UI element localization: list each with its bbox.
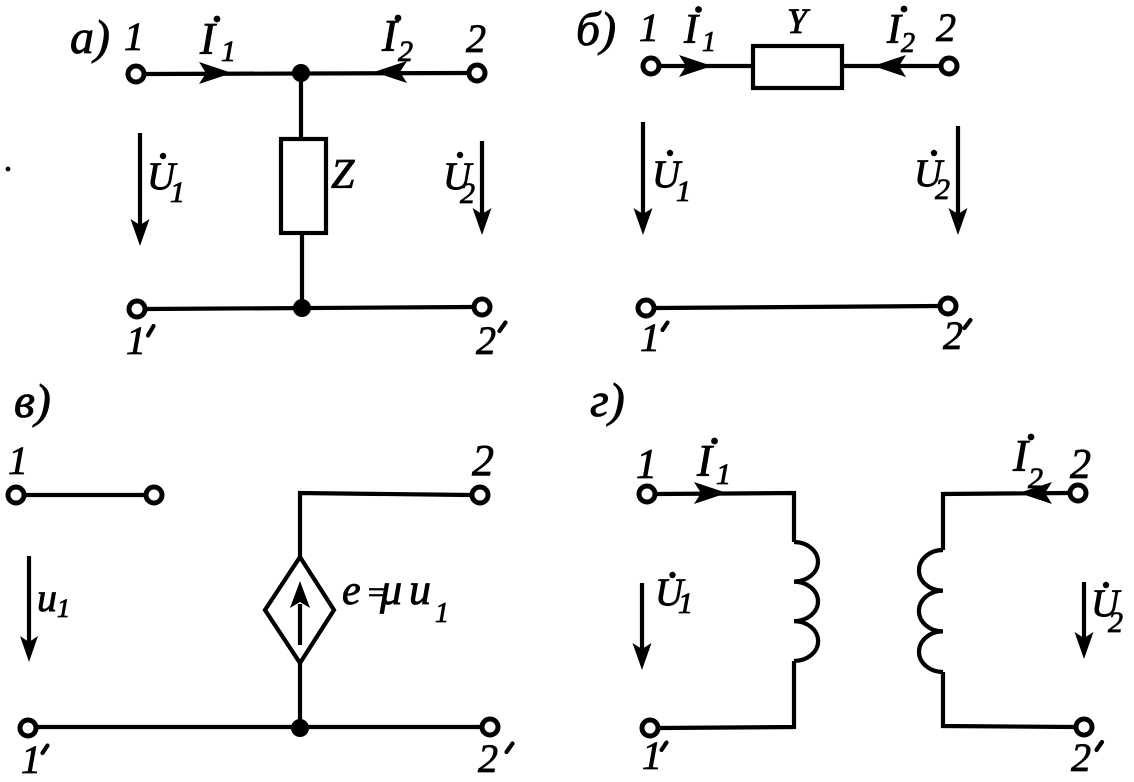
terminal 1 — [8, 487, 24, 503]
current I1 label — [199, 14, 236, 68]
node 2' label — [476, 318, 506, 363]
svg-text:1: 1 — [435, 598, 449, 629]
terminal 2' — [474, 299, 490, 315]
voltage U2 label — [443, 152, 475, 210]
terminal 2' — [940, 298, 956, 314]
voltage U2 arrow — [1075, 582, 1094, 659]
svg-text:e: e — [342, 568, 361, 614]
svg-text:Z: Z — [331, 152, 355, 198]
svg-text:1: 1 — [57, 594, 70, 623]
terminal 1' — [129, 301, 145, 317]
terminal 2' — [1076, 719, 1092, 735]
svg-text:μ: μ — [379, 565, 402, 614]
current I2 label — [886, 6, 915, 59]
node junction bottom — [291, 719, 309, 737]
source inner arrow — [290, 581, 310, 645]
wire coil bottom to terminal 2' — [943, 672, 1074, 727]
open end terminal — [146, 487, 162, 503]
svg-text:1: 1 — [716, 458, 731, 491]
voltage U1 arrow — [131, 133, 150, 246]
svg-text:1: 1 — [170, 176, 185, 209]
wire Y to terminal 2 — [842, 64, 939, 68]
impedance Z body — [281, 139, 326, 233]
svg-text:I: I — [683, 7, 700, 53]
svg-text:2: 2 — [1108, 606, 1123, 639]
svg-text:I: I — [199, 14, 217, 64]
svg-text:1: 1 — [702, 27, 716, 58]
node 1' label — [126, 318, 154, 363]
svg-text:2: 2 — [936, 5, 956, 50]
terminal 1 — [128, 66, 144, 82]
svg-text:2: 2 — [901, 28, 915, 59]
terminal 2 — [1070, 485, 1086, 501]
terminal 1 — [639, 486, 655, 502]
svg-text:1: 1 — [124, 14, 144, 59]
wire terminal 1 to Y — [661, 64, 753, 68]
svg-text:2: 2 — [1071, 735, 1091, 780]
svg-text:u: u — [409, 565, 431, 614]
voltage U1 label — [655, 571, 693, 620]
current I1 arrow — [199, 62, 232, 84]
voltage U2 arrow — [949, 126, 968, 235]
svg-text:u: u — [37, 575, 57, 620]
terminal 1' — [638, 300, 654, 316]
voltage u1 label — [37, 575, 70, 623]
wire terminal 2 to coil top — [943, 493, 1068, 550]
voltage U2 label — [1091, 582, 1123, 639]
terminal 2 — [472, 487, 488, 503]
current I2 arrow — [1019, 482, 1052, 504]
terminal 2 — [941, 58, 957, 74]
coil L2 — [919, 550, 943, 672]
wire node to Z — [299, 73, 303, 141]
svg-text:1: 1 — [640, 315, 660, 360]
current I2 label — [381, 11, 413, 68]
voltage U2 label — [914, 150, 950, 206]
current I2 arrow — [374, 61, 407, 83]
node 2' label — [1071, 735, 1102, 780]
node 1' label — [642, 733, 667, 778]
svg-text:1: 1 — [21, 737, 41, 782]
svg-text:1: 1 — [639, 5, 659, 50]
voltage U1 arrow — [634, 122, 653, 235]
scan speck — [6, 167, 11, 172]
svg-text:2: 2 — [460, 177, 475, 210]
terminal 1' — [20, 720, 36, 736]
svg-text:1: 1 — [636, 442, 657, 488]
bottom wire 1' to 2' — [37, 725, 481, 729]
svg-text:в): в) — [14, 375, 51, 428]
svg-text:г): г) — [590, 374, 625, 427]
svg-text:б): б) — [576, 3, 616, 56]
current I2 label — [1012, 431, 1043, 495]
node 2' label — [478, 736, 513, 781]
current I1 arrow — [679, 55, 712, 77]
wire Z to bottom node — [300, 233, 304, 308]
wire source to bottom node — [298, 663, 302, 728]
svg-text:1: 1 — [8, 438, 28, 483]
open wire from terminal 1 — [26, 493, 144, 497]
wire terminal 1 to coil top — [657, 493, 794, 542]
svg-text:1: 1 — [642, 733, 662, 778]
svg-text:I: I — [696, 436, 714, 486]
svg-text:2: 2 — [472, 436, 494, 485]
svg-text:2: 2 — [466, 16, 486, 61]
node junction bottom — [293, 299, 311, 317]
terminal 2 — [469, 65, 485, 81]
source value label e = mu u1 — [342, 565, 449, 629]
terminal 1' — [642, 720, 658, 736]
svg-text:а): а) — [70, 11, 110, 64]
svg-text:2: 2 — [1070, 442, 1091, 488]
wire top: terminal 1 to terminal 2 — [146, 73, 468, 74]
dependent source diamond — [265, 557, 334, 663]
voltage U1 label — [652, 150, 691, 208]
svg-text:2: 2 — [476, 318, 496, 363]
bottom wire 1' to 2' — [656, 306, 938, 308]
wire source top corner to terminal 2 — [300, 493, 470, 559]
svg-text:2: 2 — [478, 736, 498, 781]
node 1' label — [640, 315, 668, 360]
svg-text:1: 1 — [221, 35, 236, 68]
svg-text:1: 1 — [676, 175, 691, 208]
voltage U2 arrow — [473, 141, 492, 235]
node junction top — [292, 64, 310, 82]
current I1 label — [696, 436, 731, 491]
voltage U1 arrow — [633, 583, 652, 670]
node 1' label — [21, 737, 48, 782]
svg-text:2: 2 — [935, 173, 950, 206]
node 2' label — [943, 313, 971, 358]
voltage U1 label — [147, 153, 185, 209]
wire coil bottom to terminal 1' — [659, 661, 794, 728]
coil L1 — [794, 542, 818, 661]
svg-text:1: 1 — [678, 587, 693, 620]
current I2 arrow — [873, 55, 906, 77]
svg-text:1: 1 — [126, 318, 146, 363]
current I1 label — [683, 6, 716, 58]
current I1 arrow — [694, 482, 727, 504]
voltage u1 arrow — [20, 556, 38, 662]
svg-text:2: 2 — [943, 313, 963, 358]
terminal 1 — [643, 58, 659, 74]
terminal 2' — [482, 719, 498, 735]
admittance Y body — [753, 46, 842, 88]
bottom wire 1' to 2' — [146, 307, 473, 309]
